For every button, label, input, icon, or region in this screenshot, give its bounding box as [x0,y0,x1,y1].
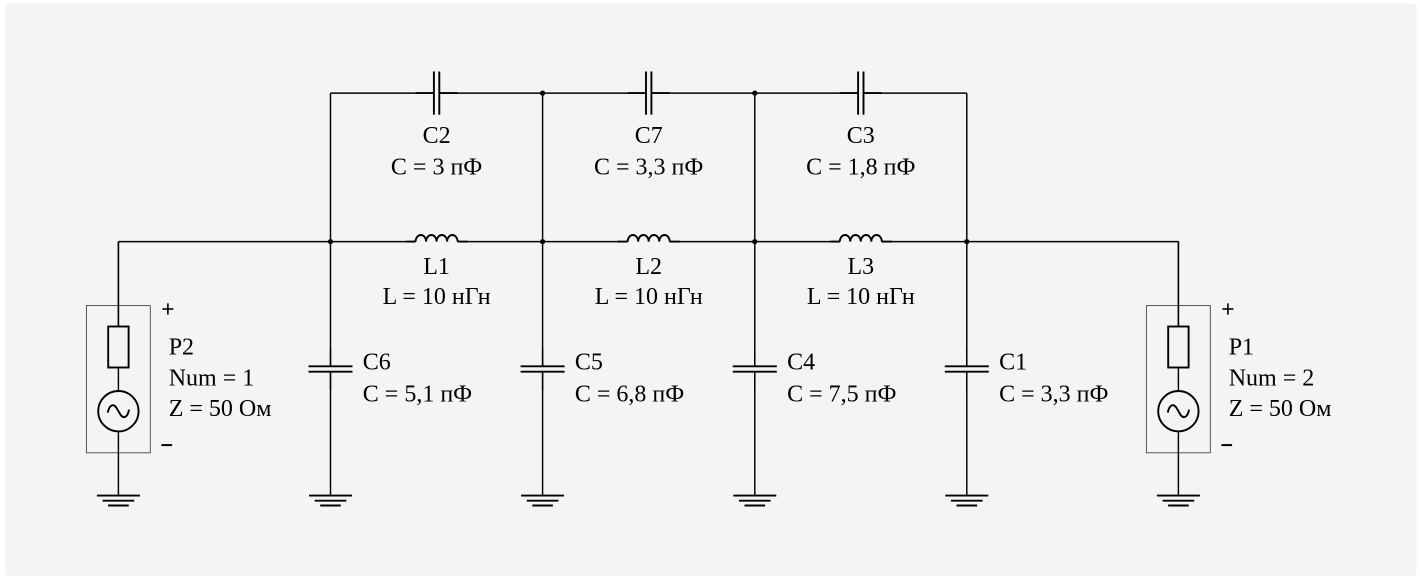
svg-text:C = 6,8 пФ: C = 6,8 пФ [575,382,684,408]
wire mid rail L2 to L3 [670,241,840,243]
svg-text:C5: C5 [575,350,603,376]
svg-text:L2: L2 [635,254,662,280]
wire top rail right segment [864,92,967,94]
svg-text:C = 5,1 пФ: C = 5,1 пФ [363,382,472,408]
svg-text:C4: C4 [787,350,815,376]
svg-text:C = 3 пФ: C = 3 пФ [391,155,482,181]
capacitor C3 [806,72,915,181]
wire mid rail L1 to L2 [458,241,628,243]
svg-text:P1: P1 [1229,335,1254,361]
capacitor C7 [594,72,703,181]
svg-text:C = 7,5 пФ: C = 7,5 пФ [787,382,896,408]
wire vertical column x=330.5 upper [330,93,332,366]
wire P2 column above port [117,242,119,327]
wire vertical column x=966.8 upper [966,93,968,366]
port P2 [86,242,271,496]
svg-text:L = 10 нГн: L = 10 нГн [383,284,491,310]
svg-text:L = 10 нГн: L = 10 нГн [595,284,703,310]
svg-text:Z = 50 Ом: Z = 50 Ом [169,396,272,422]
svg-text:L3: L3 [847,254,874,280]
node junction (754.8,241.6) [752,239,757,244]
svg-text:C = 3,3 пФ: C = 3,3 пФ [594,155,703,181]
node junction (966.8,241.6) [964,239,969,244]
inductor L2 [595,235,703,310]
wire top rail left segment [331,92,434,94]
capacitor C2 [391,72,482,181]
wire P1 column above port [1177,242,1179,327]
capacitor C6 [309,348,473,408]
wire vertical column x=542.6 upper [542,93,544,366]
wire vertical column x=330.5 lower [330,372,332,496]
wire vertical column x=754.8 lower [754,372,756,496]
svg-text:C = 3,3 пФ: C = 3,3 пФ [999,382,1108,408]
ground [733,496,776,506]
wire mid rail L3 to P1 [882,241,1179,243]
wire mid rail P2 to L1 [118,241,415,243]
capacitor C4 [733,348,897,408]
wire top rail segment C7 to C3 [651,92,858,94]
capacitor C5 [521,348,685,408]
wire vertical column x=754.8 upper [754,93,756,366]
svg-text:P2: P2 [169,335,194,361]
ground [1157,496,1200,506]
svg-text:Num = 2: Num = 2 [1229,365,1315,391]
svg-text:L1: L1 [423,254,450,280]
svg-text:Num = 1: Num = 1 [169,365,255,391]
ground [521,496,564,506]
ground [945,496,988,506]
svg-text:C2: C2 [423,123,451,149]
inductor L1 [383,235,491,310]
svg-text:C = 1,8 пФ: C = 1,8 пФ [806,155,915,181]
inductor L3 [807,235,915,310]
wire top rail segment C2 to C7 [439,92,646,94]
svg-text:Z = 50 Ом: Z = 50 Ом [1229,396,1332,422]
node junction (542.6,93.1) [540,91,545,96]
svg-text:C1: C1 [999,350,1027,376]
port P1 [1146,242,1331,496]
svg-text:C6: C6 [363,350,391,376]
ground [97,496,140,506]
node junction (754.8,93.1) [752,91,757,96]
node junction (330.5,241.6) [328,239,333,244]
svg-text:C3: C3 [847,123,875,149]
wire vertical column x=542.6 lower [542,372,544,496]
node junction (542.6,241.6) [540,239,545,244]
capacitor C1 [945,348,1109,408]
svg-text:C7: C7 [635,123,663,149]
wire vertical column x=966.8 lower [966,372,968,496]
ground [309,496,352,506]
svg-text:L = 10 нГн: L = 10 нГн [807,284,915,310]
